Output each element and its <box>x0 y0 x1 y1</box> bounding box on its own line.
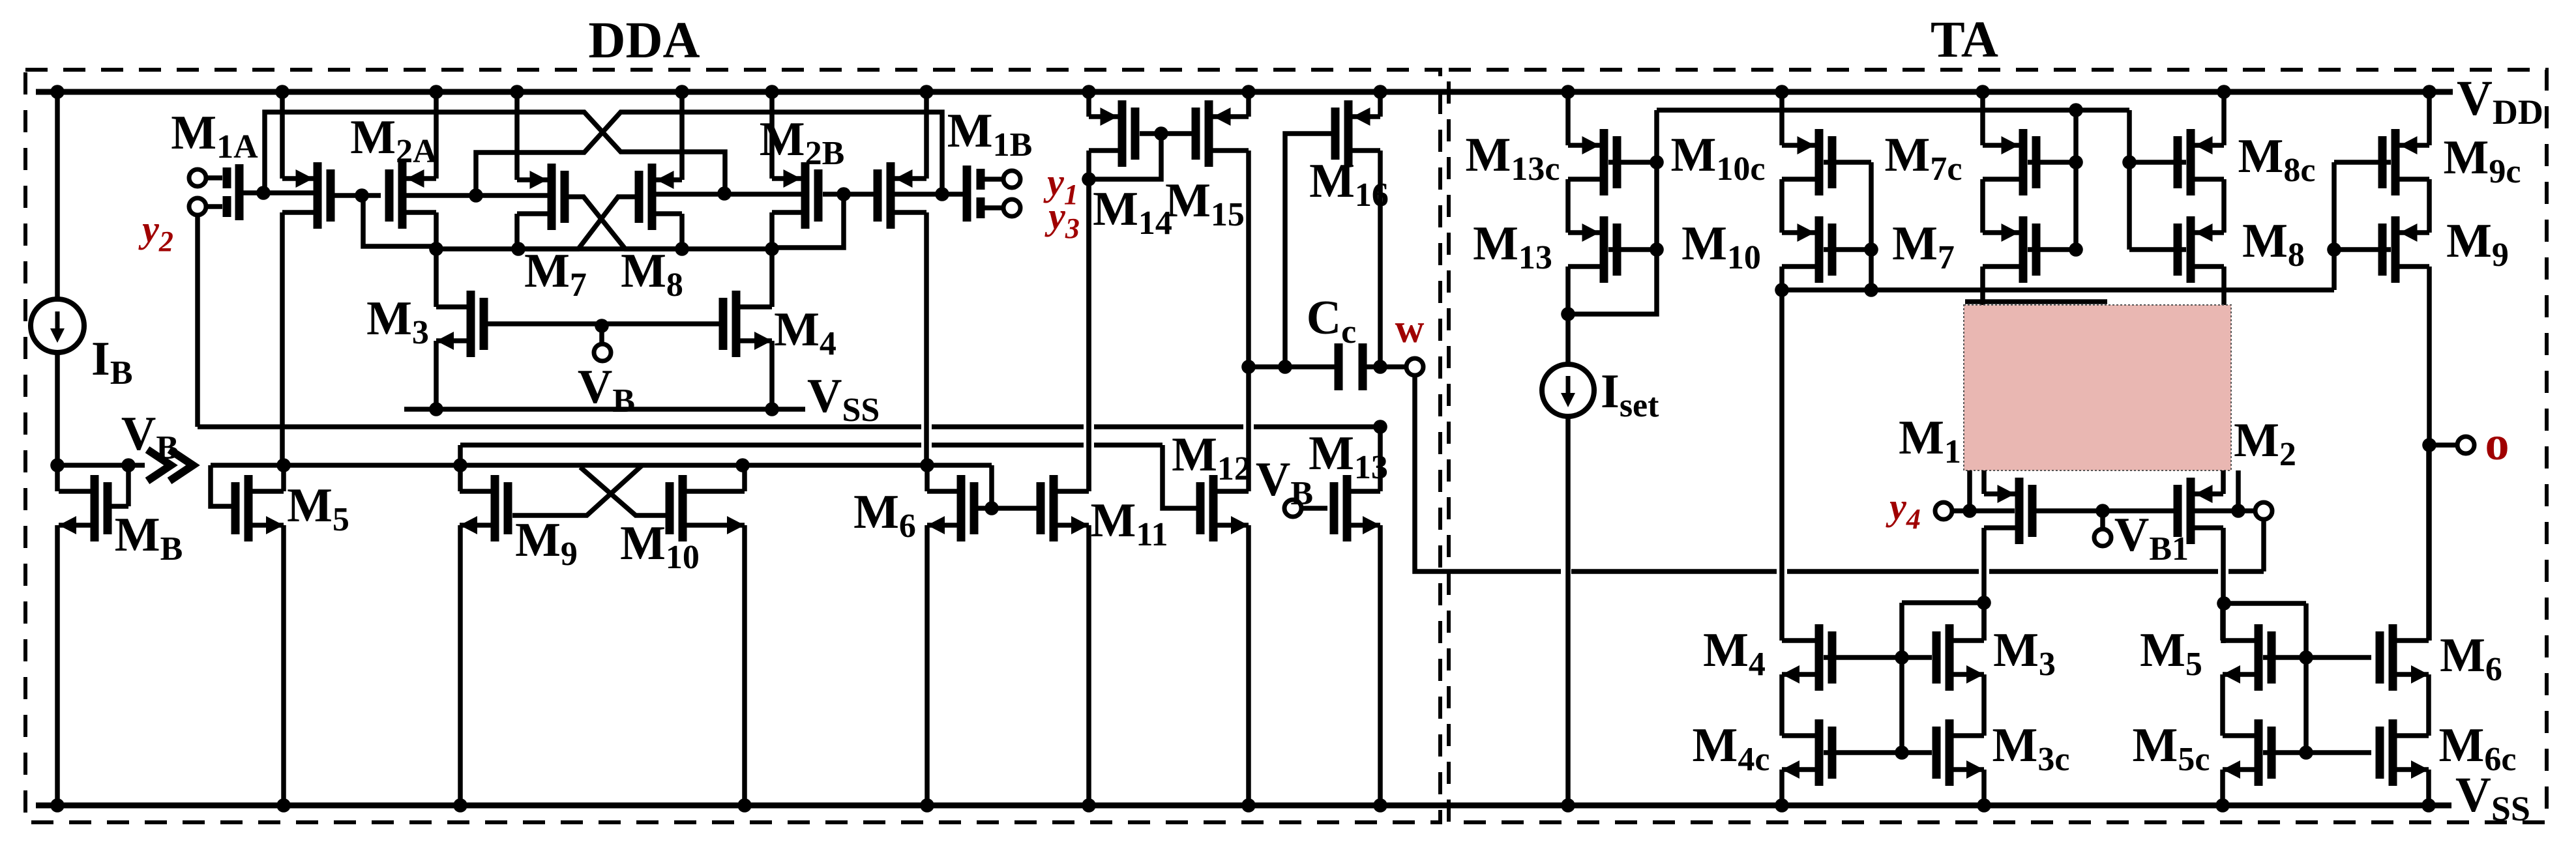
wire M2 drain down <box>2221 528 2226 643</box>
wire w bus seg5 <box>2228 569 2264 574</box>
capacitor Cc <box>1335 343 1343 390</box>
wire bus683 to M12 gate <box>1162 445 1198 508</box>
junction on VDD rail x=433 <box>275 85 289 99</box>
junction on VSS rail x=1670 <box>1082 798 1096 813</box>
transistor MB <box>91 475 99 541</box>
node VB <box>595 319 609 333</box>
wire M5 gate lead <box>2263 655 2371 660</box>
transistor M7c (TA) <box>2019 129 2028 195</box>
node M1B body <box>935 187 949 201</box>
wire M1A floating gate to body <box>243 190 314 195</box>
wire M11 source to VSS <box>1086 525 1091 805</box>
TA block dashed border <box>1449 70 2547 822</box>
node local VSS right <box>765 402 779 416</box>
wire M10c-M10 chain <box>1779 179 1784 233</box>
node M6 gate tie <box>985 501 999 515</box>
transistor M5 (TA) <box>2255 624 2263 691</box>
wire M1B drain down <box>924 212 929 465</box>
wire M13 source to VSS <box>1378 525 1383 805</box>
transistor M10 (TA) <box>1815 216 1824 283</box>
node Cc-M16gate <box>1278 360 1292 374</box>
wire M1 drain down <box>1981 528 1987 641</box>
transistor M13 (TA) <box>1600 216 1608 283</box>
wire M14-M15 gate link <box>1140 131 1192 136</box>
transistor M9 (TA) <box>2391 216 2400 283</box>
junction on VSS rail x=3409 <box>2215 798 2230 813</box>
wire M2 body link <box>2195 508 2255 513</box>
node M10 drain <box>735 458 750 472</box>
node cascode bus left <box>1775 283 1789 297</box>
wire body cross line A <box>265 112 725 194</box>
node bias-M7c column <box>2069 103 2083 117</box>
wire M9c gate lead <box>2334 160 2391 165</box>
summing junction box (highlight) <box>1964 305 2231 470</box>
wire M9 source to VSS <box>458 525 463 805</box>
node M14 drain <box>1082 172 1096 186</box>
node M2 body <box>2231 504 2245 518</box>
junction on VSS rail x=2405 <box>1561 798 1575 813</box>
transistor M1 (TA) <box>2015 478 2024 544</box>
transistor M8c (TA) <box>2187 129 2195 195</box>
node M14 gate tie <box>1154 126 1168 141</box>
wire M13c source to VDD <box>1565 92 1571 145</box>
wire M9 drain to output <box>2427 267 2432 641</box>
node VB junction at MB drain <box>50 458 65 472</box>
wire M10 drain down long <box>1779 267 1784 641</box>
wire M16 gate <box>1285 134 1331 367</box>
junction on VSS rail x=435 <box>276 798 291 813</box>
wire y2 lower stub <box>206 204 222 209</box>
node M13c gate <box>1650 155 1664 169</box>
wire Cc right <box>1367 364 1406 369</box>
node bus382 left <box>429 242 443 256</box>
junction on VDD rail x=3041 <box>1976 85 1990 99</box>
wire M8 drain down <box>2221 267 2227 470</box>
wire M2A diode tie <box>363 194 436 246</box>
wire M13 diode loop <box>1568 110 1657 314</box>
wire M4c gate lead <box>1824 750 1932 755</box>
transistor M8 (TA) <box>2187 216 2195 283</box>
wire M13 drain up <box>1378 427 1383 491</box>
wire M8 gate lead <box>2129 247 2186 252</box>
wire hidden segment in box <box>1965 299 2107 304</box>
node bus655-M13 <box>1373 420 1387 434</box>
wire M6 source to VSS <box>925 525 930 805</box>
wire y2 lower to bus <box>195 215 200 427</box>
node M4c-M3c gate <box>1895 745 1909 760</box>
node Cc-M16 drain <box>1373 360 1387 374</box>
wire VB gate bus <box>488 321 719 326</box>
wire M4c source to VSS <box>1779 770 1784 805</box>
junction on VSS rail x=3725 <box>2421 798 2436 813</box>
transistor M6 (TA) <box>2389 624 2397 691</box>
transistor M3 (TA) <box>1946 624 1954 691</box>
wire M3-M3c chain <box>1981 674 1987 736</box>
wire y2 upper stub <box>206 175 222 180</box>
terminal y1 <box>1003 171 1020 188</box>
transistor M13 (DDA) <box>1343 475 1352 541</box>
wire M10c source to VDD <box>1779 92 1784 145</box>
wire M3c source to VSS <box>1981 770 1987 805</box>
node output o <box>2422 438 2436 452</box>
wire M2A body link <box>406 193 548 198</box>
wire y3 stub <box>985 205 1003 210</box>
wire M13 gate lead <box>1608 247 1657 252</box>
wire Iset to VSS <box>1565 416 1571 805</box>
wire M9c source to VDD <box>2427 92 2432 145</box>
wire M8 gate column <box>2127 110 2132 250</box>
wire M16 source to VDD <box>1378 92 1383 117</box>
wire M6c source to VSS <box>2426 770 2431 805</box>
wire M16 drain down <box>1378 151 1383 367</box>
wire output stub <box>2429 442 2457 448</box>
DDA block dashed border <box>25 70 1440 822</box>
terminal VB (M13) <box>1284 500 1301 517</box>
current source IB <box>31 299 84 353</box>
wire M9 gate lead <box>2334 247 2391 252</box>
junction on VDD rail x=669 <box>429 85 443 99</box>
wire M9 drain up <box>458 465 463 491</box>
wire M14 source to VDD <box>1086 92 1091 117</box>
wire bus y655 seg2 <box>932 424 1084 429</box>
node bus382 M7 <box>511 242 526 256</box>
junction on VDD rail x=3411 <box>2217 85 2231 99</box>
node M9 drain <box>453 458 467 472</box>
transistor M2 (TA) <box>2187 478 2195 544</box>
input bar y3 <box>977 197 985 218</box>
wire M8c-M8 chain <box>2221 179 2227 233</box>
wire M8 source to VDD <box>679 92 685 180</box>
wire M15 drain down <box>1246 151 1251 367</box>
wire w bus seg3 <box>1787 569 1979 574</box>
wire VB stub <box>57 463 145 468</box>
wire M9 gate cross to M10 gate <box>580 467 668 515</box>
wire diode tie right <box>2224 601 2306 606</box>
node VB1 <box>2095 504 2110 518</box>
wire M10 source to VSS <box>742 525 747 805</box>
junction on VDD rail x=1184 <box>765 85 779 99</box>
terminal VB (M3/M4) <box>594 344 611 361</box>
svg-text:TA: TA <box>1931 12 1998 68</box>
terminal o <box>2457 437 2474 454</box>
wire bus y655 seg4 <box>1254 424 1380 429</box>
transistor M6c (TA) <box>2389 719 2397 786</box>
wire M2B diode tie <box>772 194 844 248</box>
wire bus y655 seg1 <box>198 424 921 429</box>
wire bus y683 seg3 <box>1094 442 1162 448</box>
node M2 drain tie <box>2217 596 2231 611</box>
wire M10 drain up <box>742 465 747 491</box>
wire M8 body link <box>656 192 801 197</box>
wire M10 gate lead <box>1824 247 1871 252</box>
junction on VDD rail x=793 <box>510 85 524 99</box>
wire Iset feed <box>1565 314 1571 365</box>
wire M2 source stub <box>2221 470 2226 494</box>
junction on VDD rail x=3726 <box>2422 85 2436 99</box>
junction on VDD rail x=1046 <box>675 85 689 99</box>
junction on VDD rail x=1670 <box>1082 85 1096 99</box>
wire M7 drain down <box>514 214 520 249</box>
wire gate column left <box>1899 603 1904 753</box>
wire M6-M11 gate link <box>978 506 1038 511</box>
junction on VSS rail x=2733 <box>1775 798 1789 813</box>
transistor M5 (DDA) <box>244 475 253 541</box>
wire M1 gate to VB1 <box>2036 508 2174 513</box>
wire M2A source to VDD <box>434 92 439 179</box>
wire M1A drain down <box>280 212 285 465</box>
svg-text:o: o <box>2485 417 2509 470</box>
wire M2B-M1B gate link <box>823 192 874 197</box>
terminal w <box>1406 358 1423 375</box>
junction on VSS rail x=1142 <box>737 798 752 813</box>
wire M7c gate lead <box>2028 160 2076 165</box>
transistor M12 <box>1209 475 1218 541</box>
transistor M13c (TA) <box>1600 129 1608 195</box>
wire M9 gate column <box>2332 162 2337 290</box>
wire M14 diode tie <box>1089 134 1161 179</box>
input bar y1 <box>977 169 985 190</box>
wire y4 stub up <box>1967 470 1972 511</box>
junction on VDD rail x=1915 <box>1241 85 1256 99</box>
junction on VDD rail x=1421 <box>919 85 934 99</box>
wire M13 gate stub <box>1301 506 1327 511</box>
wire bus683 stub <box>458 445 463 465</box>
wire M7c source to VDD <box>1980 92 1985 145</box>
wire M7 gate cross <box>569 197 682 249</box>
wire M5-M5c chain <box>2220 674 2225 736</box>
wire bus y683 seg2 <box>932 442 1084 448</box>
transistor M4c (TA) <box>1815 719 1824 786</box>
wire Cc left <box>1249 364 1335 369</box>
transistor M9 (DDA) <box>491 475 499 541</box>
wire M5c gate lead <box>2263 750 2371 755</box>
wire M8 drain down <box>679 214 685 249</box>
wire M1A gate link <box>334 193 381 198</box>
transistor M10c (TA) <box>1815 129 1824 195</box>
node M8c gate <box>2122 155 2137 169</box>
wire M7 gate column <box>2073 110 2079 250</box>
wire M7 source to VDD <box>514 92 520 180</box>
junction on VDD rail x=88 <box>50 85 65 99</box>
wire M3 source to VSS bus <box>434 341 439 409</box>
wire w bus seg2 <box>1571 569 1777 574</box>
transistor M15 <box>1205 100 1213 167</box>
transistor M7 <box>548 164 556 230</box>
wire w terminal riser <box>2261 519 2266 571</box>
wire VDD rail <box>36 89 2453 95</box>
wire M1B source to VDD <box>924 92 929 179</box>
transistor M7 (TA) <box>2019 216 2028 283</box>
transistor M1B <box>887 162 895 229</box>
wire M4 source to VSS bus <box>769 341 775 409</box>
wire IB branch upper <box>55 92 60 300</box>
svg-text:DDA: DDA <box>588 12 700 69</box>
wire gate column right <box>2303 603 2309 753</box>
transistor M14 <box>1118 100 1127 167</box>
node MB gate-drain tie <box>121 458 136 472</box>
node M9 gate <box>2327 242 2341 257</box>
node Iset top <box>1561 307 1575 321</box>
node Cc-M15 <box>1241 360 1256 374</box>
node M7 gate <box>2069 242 2083 257</box>
wire M13c gate lead <box>1608 160 1657 165</box>
transistor M2A <box>398 162 407 229</box>
wire TA bias line y169 <box>1657 108 2129 113</box>
terminal y2 upper <box>189 169 206 186</box>
wire M15 source to VDD <box>1246 92 1251 117</box>
wire drain bus y382 <box>436 246 772 252</box>
terminal y3 <box>1003 199 1020 216</box>
current source Iset <box>1542 364 1594 416</box>
wire M10 gate cross to M9 gate <box>512 465 642 515</box>
wire M2B drain down <box>769 212 775 307</box>
wire local VSS <box>404 407 805 412</box>
input bar y2 upper <box>223 167 231 188</box>
node M7c gate <box>2069 155 2083 169</box>
terminal w input (M2) <box>2255 502 2272 519</box>
wire M7c-M7 chain <box>1980 179 1985 233</box>
node bus382 right <box>765 242 779 256</box>
junction on VSS rail x=706 <box>453 798 467 813</box>
wire M2 body stub up <box>2236 470 2241 511</box>
wire MB gate up <box>126 465 131 506</box>
node M2A body <box>469 188 483 203</box>
wire MB source to VSS <box>55 525 60 805</box>
wire M5 drain up <box>281 465 286 491</box>
wire M2A drain down <box>434 212 439 307</box>
node M4-M3 gate <box>1895 650 1909 665</box>
wire y4 body link <box>1952 508 2015 513</box>
terminal y2 lower <box>189 198 206 215</box>
wire w down <box>1415 376 1561 571</box>
wire M3 top <box>1981 603 1987 641</box>
wire M5 source to VSS <box>281 525 286 805</box>
wire M6-M6c chain <box>2426 674 2431 736</box>
node y4 <box>1962 504 1977 518</box>
wire M1 source stub <box>1981 470 1987 494</box>
wire M2B source to VDD <box>769 92 775 179</box>
svg-text:w: w <box>1395 307 1425 351</box>
junction on VSS rail x=1915 <box>1241 798 1256 813</box>
junction on VDD rail x=2733 <box>1775 85 1789 99</box>
wire M5 top <box>2220 603 2225 641</box>
wire VB terminal stub <box>599 326 604 344</box>
wire M5c source to VSS <box>2220 770 2225 805</box>
junction on VSS rail x=88 <box>50 798 65 813</box>
wire M9c-M9 chain <box>2427 179 2432 233</box>
transistor M3c (TA) <box>1946 719 1954 786</box>
wire y1 stub <box>985 177 1003 182</box>
transistor M6 (DDA) <box>957 475 966 541</box>
wire M8c source to VDD <box>2221 92 2227 145</box>
node M10 gate <box>1864 242 1878 257</box>
wire cascode bus y445 <box>1782 287 2334 293</box>
node local VSS left <box>429 402 443 416</box>
wire body cross line B <box>476 112 942 195</box>
wire VB1 stub <box>2100 511 2105 529</box>
node M1A body tie <box>256 186 271 200</box>
node M1A-M2A gate <box>355 188 369 203</box>
wire IB branch to VB node <box>55 351 60 491</box>
wire M10 gate column <box>1869 162 1874 290</box>
transistor M2B <box>801 162 810 229</box>
wire M13 drain down <box>1565 267 1571 314</box>
node M6 drain <box>920 458 934 472</box>
node M2B gate tie <box>836 187 851 201</box>
node M1 drain tie <box>1977 596 1991 610</box>
transistor M9c (TA) <box>2391 129 2400 195</box>
wire M5 gate loop <box>211 465 238 506</box>
transistor M8 (DDA) <box>648 164 657 230</box>
wire M7 drain into summing box <box>1980 267 1985 470</box>
input bar y2 lower <box>223 196 231 217</box>
wire VSS rail <box>36 803 2451 809</box>
wire bus y683 seg1 <box>460 442 921 448</box>
wire M6 drain up <box>925 465 930 491</box>
wire M13c-M13 chain <box>1565 179 1571 233</box>
wire bus y714 <box>211 463 992 468</box>
wire M4-M4c chain <box>1779 674 1784 736</box>
node M5c-M6c gate <box>2299 745 2313 760</box>
VB distribution arrow <box>147 450 193 481</box>
node M5-M6 gate <box>2299 650 2313 665</box>
node M2B body <box>717 186 732 201</box>
wire MB gate lead <box>112 504 129 509</box>
wire M6 diode tie <box>989 465 994 508</box>
wire M11 drain up <box>1086 179 1091 491</box>
wire M10c gate lead <box>1824 160 1871 165</box>
wire M1A source to VDD <box>280 92 285 179</box>
node bus382 M8 <box>675 242 689 256</box>
wire M4 gate lead <box>1824 655 1932 660</box>
wire M1B body to floating gate <box>895 192 963 197</box>
wire M8c gate lead <box>2129 160 2186 165</box>
transistor M4 (TA) <box>1815 624 1824 691</box>
wire diode tie left <box>1902 600 1984 605</box>
transistor M4 (DDA) <box>732 291 741 357</box>
transistor M5c (TA) <box>2255 719 2263 786</box>
floating gate bar M1A <box>235 164 244 220</box>
wire M14 drain down <box>1086 151 1091 491</box>
junction on VSS rail x=2117 <box>1373 798 1387 813</box>
wire M7 gate lead <box>2028 247 2076 252</box>
node M13 gate <box>1650 242 1664 257</box>
transistor M10 (DDA) <box>679 475 687 541</box>
wire M8 gate cross <box>518 197 635 249</box>
transistor M3 (DDA) <box>467 291 475 357</box>
junction on VSS rail x=1422 <box>920 798 934 813</box>
transistor M16 <box>1344 100 1353 167</box>
floating gate bar M1B <box>963 166 971 222</box>
junction on VDD rail x=2117 <box>1373 85 1387 99</box>
terminal y4 <box>1935 502 1952 519</box>
node cascode bus M10 <box>1864 283 1878 297</box>
transistor M1A <box>314 162 322 229</box>
node M5 drain <box>276 458 291 472</box>
wire w bus seg4 <box>1989 569 2218 574</box>
transistor M11 <box>1050 475 1058 541</box>
junction on VDD rail x=2405 <box>1561 85 1575 99</box>
wire M12 drain up <box>1246 367 1251 491</box>
terminal VB1 <box>2094 529 2111 546</box>
junction on VSS rail x=3043 <box>1977 798 1991 813</box>
wire M12 source to VSS <box>1246 525 1251 805</box>
wire bus y655 seg3 <box>1094 424 1243 429</box>
wire M6 drain up <box>2426 445 2431 641</box>
